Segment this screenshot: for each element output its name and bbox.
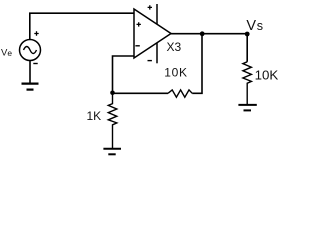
op-amp V- label — [148, 60, 152, 62]
resistor 1K — [108, 95, 117, 148]
svg-text:10K: 10K — [255, 68, 278, 83]
resistor R feedback 10K — [168, 90, 192, 97]
wire Ve bottom to ground — [29, 61, 31, 84]
ground (10K load) — [238, 105, 256, 111]
wire Vs to 10K load — [246, 36, 248, 62]
polarity + of Ve — [34, 31, 38, 35]
svg-text:e: e — [7, 48, 12, 58]
node Vs — [245, 32, 250, 37]
ground (source) — [22, 84, 39, 90]
ground (1K) — [103, 149, 121, 155]
wire inverting input — [113, 56, 135, 91]
wire junction to feedback resistor — [113, 92, 169, 94]
op-amp V+ pin — [156, 4, 158, 24]
wire Ve top to op-amp +in — [30, 13, 134, 39]
wire feedback to output riser — [192, 36, 202, 93]
op-amp +in label — [137, 22, 141, 26]
polarity - of Ve — [33, 63, 37, 65]
op-amp X3 — [134, 9, 171, 58]
node junction 1K/feedback — [110, 91, 115, 96]
svg-text:s: s — [257, 19, 263, 33]
op-amp V+ label — [148, 5, 152, 9]
svg-text:10K: 10K — [164, 65, 187, 79]
node output junction — [200, 31, 205, 36]
op-amp V- pin — [156, 43, 158, 64]
svg-text:X3: X3 — [167, 40, 182, 54]
op-amp -in label — [135, 45, 139, 47]
svg-text:1K: 1K — [87, 109, 102, 123]
wire output — [171, 33, 247, 35]
resistor 10K load — [243, 62, 252, 104]
voltage source Ve — [20, 40, 41, 61]
svg-text:V: V — [246, 18, 256, 34]
